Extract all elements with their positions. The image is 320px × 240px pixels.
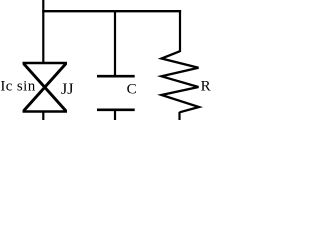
wire: capacitor branch bbox=[114, 11, 116, 76]
svg-text:R: R bbox=[201, 79, 211, 95]
wire: top bus horizontal bbox=[42, 10, 181, 12]
resistor R zigzag bbox=[162, 51, 200, 112]
capacitor C bottom plate bbox=[97, 109, 135, 112]
wire: resistor branch bbox=[179, 10, 181, 52]
capacitor C top plate bbox=[97, 75, 135, 78]
Josephson junction JJ bowtie bbox=[23, 63, 68, 112]
wire: JJ bottom stub bbox=[42, 112, 44, 121]
wire: resistor bottom stub bbox=[178, 112, 180, 120]
wire: top feed vertical bbox=[42, 0, 44, 63]
wire: capacitor bottom stub bbox=[114, 110, 116, 120]
svg-text:Ic sin: Ic sin bbox=[0, 78, 35, 94]
svg-text:C: C bbox=[127, 82, 137, 98]
svg-text:JJ: JJ bbox=[61, 81, 73, 98]
